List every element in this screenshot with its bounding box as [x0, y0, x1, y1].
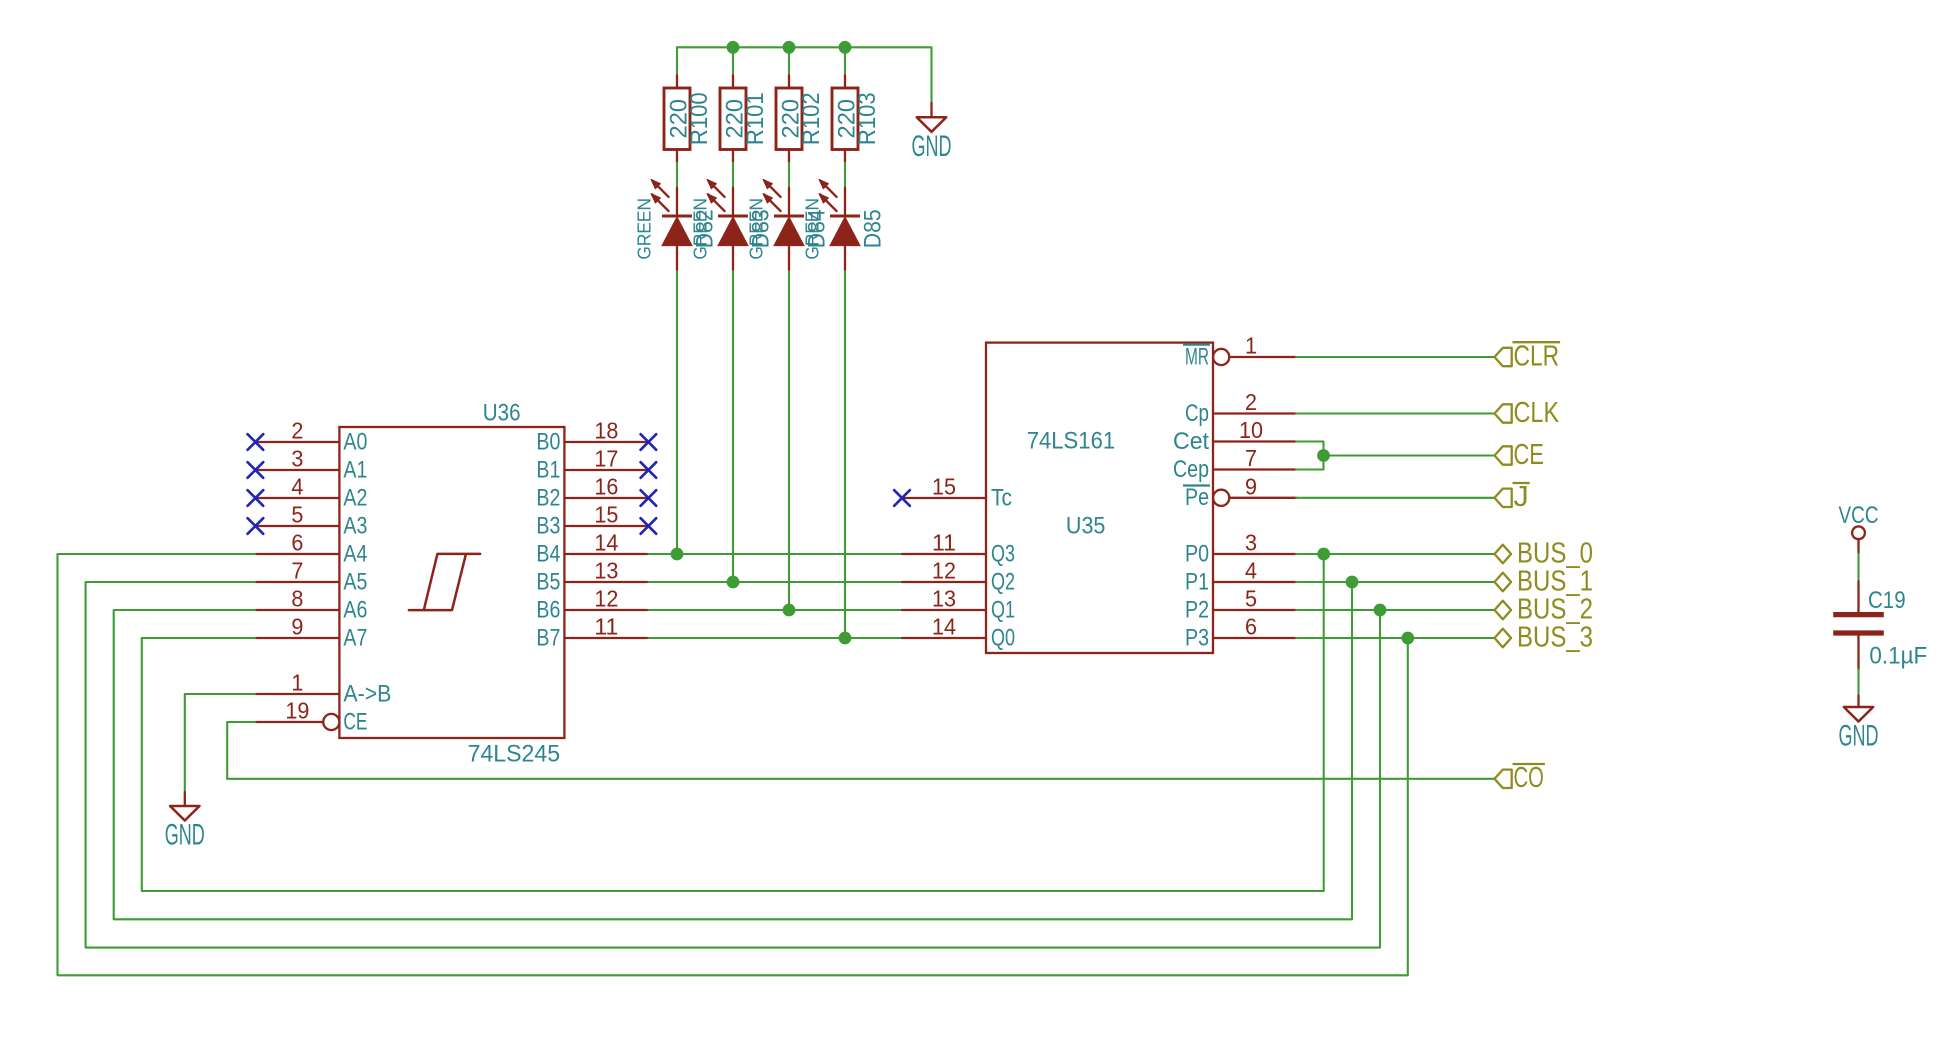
no-connect X at B3: [641, 518, 657, 534]
svg-text:7: 7: [1245, 445, 1257, 471]
wire: rail drop R102: [788, 47, 790, 75]
pin 2 A0 of U36: [255, 418, 367, 456]
svg-text:GND: GND: [165, 819, 205, 852]
svg-text:B5: B5: [536, 568, 560, 595]
pin 13 B5 of U36: [536, 558, 648, 596]
svg-text:19: 19: [285, 698, 309, 724]
svg-text:0.1µF: 0.1µF: [1869, 643, 1927, 670]
svg-text:CO: CO: [1514, 762, 1544, 794]
wire: P3 to BUS_3: [1296, 637, 1495, 639]
svg-text:R101: R101: [742, 92, 769, 145]
wire: LED D85 to B7 net: [844, 271, 846, 638]
junction at P pin x=1352: [1346, 576, 1359, 589]
junction on rail at R101: [727, 41, 740, 54]
wire: MR to CLR: [1296, 356, 1495, 358]
wire: A->B pin to ground: [185, 694, 256, 792]
svg-text:13: 13: [932, 586, 956, 612]
pin 9 Pe of U35: [1183, 473, 1296, 511]
svg-text:B2: B2: [536, 484, 560, 511]
svg-text:Cp: Cp: [1185, 400, 1209, 427]
svg-text:16: 16: [594, 474, 618, 500]
resistor R100 220: [664, 76, 713, 163]
pin 8 A6 of U36: [255, 586, 367, 624]
svg-text:1: 1: [291, 670, 303, 696]
svg-text:1: 1: [1245, 333, 1257, 359]
pin 3 P0 of U35: [1185, 530, 1296, 568]
svg-text:Q3: Q3: [991, 540, 1015, 567]
svg-text:3: 3: [291, 446, 303, 472]
junction at P pin x=1323.7: [1317, 548, 1330, 561]
svg-text:R103: R103: [854, 92, 881, 145]
pin 17 B1 of U36: [536, 446, 648, 484]
svg-text:A1: A1: [343, 456, 367, 483]
pin 16 B2 of U36: [536, 474, 648, 512]
svg-text:GND: GND: [1839, 720, 1879, 753]
svg-text:GREEN: GREEN: [803, 198, 823, 260]
svg-text:Cet: Cet: [1173, 428, 1209, 455]
wire: LED anode GND rail: [677, 47, 932, 103]
svg-text:GREEN: GREEN: [691, 198, 711, 260]
svg-text:7: 7: [291, 558, 303, 584]
svg-text:14: 14: [594, 530, 618, 556]
svg-text:2: 2: [1245, 389, 1257, 415]
svg-text:17: 17: [594, 446, 618, 472]
wire: VCC to C19: [1857, 554, 1859, 582]
svg-text:GND: GND: [912, 130, 952, 163]
svg-text:P2: P2: [1185, 596, 1209, 623]
svg-text:VCC: VCC: [1839, 502, 1879, 529]
junction at (677,554): [671, 548, 684, 561]
wire: R103 to LED: [844, 163, 846, 188]
pin 2 Cp of U35: [1185, 389, 1296, 427]
svg-text:4: 4: [1245, 558, 1257, 584]
wire: P2 to BUS_2: [1296, 609, 1495, 611]
no-connect X at A1: [248, 462, 264, 478]
svg-text:Cep: Cep: [1173, 456, 1209, 483]
svg-text:B1: B1: [536, 456, 560, 483]
LED D85 GREEN: [803, 179, 887, 271]
no-connect X at B0: [641, 434, 657, 450]
pin 3 A1 of U36: [255, 446, 367, 484]
svg-text:B0: B0: [536, 428, 560, 455]
svg-text:4: 4: [291, 474, 303, 500]
wire: R101 to LED: [732, 163, 734, 188]
pin 11 Q3 of U35: [902, 530, 1015, 568]
no-connect X at Tc: [894, 490, 910, 506]
pin 7 Cep of U35: [1173, 445, 1296, 483]
wire: B7 row to Q pin: [648, 637, 902, 639]
pin 1 A->B of U36: [255, 670, 391, 708]
svg-text:U36: U36: [483, 400, 521, 427]
svg-text:14: 14: [932, 614, 956, 640]
resistor R103 220: [832, 76, 881, 163]
wire: B6 row to Q pin: [648, 609, 902, 611]
op-amp U35 74LS161 counter: [986, 343, 1213, 653]
wire: BUS_3 feedback loop to A7: [58, 554, 1408, 975]
no-connect X at A3: [248, 518, 264, 534]
wire: CE pin to CO label: [227, 722, 1494, 779]
no-connect X at A2: [248, 490, 264, 506]
svg-text:Q0: Q0: [991, 624, 1015, 651]
hierarchical label BUS_2: [1495, 593, 1594, 625]
pin 4 A2 of U36: [255, 474, 367, 512]
pin 10 Cet of U35: [1173, 417, 1296, 455]
pin 9 A7 of U36: [255, 614, 367, 652]
svg-text:CLR: CLR: [1514, 340, 1560, 372]
pin 5 A3 of U36: [255, 502, 367, 540]
junction at (845,638): [839, 632, 852, 645]
pin 4 P1 of U35: [1185, 558, 1296, 596]
svg-text:CE: CE: [1514, 439, 1544, 471]
pin 7 A5 of U36: [255, 558, 367, 596]
svg-text:J: J: [1514, 481, 1529, 513]
junction at (733,582): [727, 576, 740, 589]
svg-text:74LS161: 74LS161: [1027, 427, 1116, 454]
wire: rail drop R103: [844, 47, 846, 75]
svg-text:GREEN: GREEN: [635, 198, 655, 260]
svg-text:R102: R102: [798, 92, 825, 145]
svg-text:9: 9: [1245, 473, 1257, 499]
pin 15 Tc of U35: [902, 474, 1012, 512]
wire: C19 to ground: [1857, 669, 1859, 695]
junction at (789,610): [783, 604, 796, 617]
junction on rail at R103: [839, 41, 852, 54]
svg-text:U35: U35: [1066, 512, 1106, 539]
pin 15 B3 of U36: [536, 502, 648, 540]
svg-text:D85: D85: [860, 209, 887, 248]
no-connect X at A0: [248, 434, 264, 450]
svg-text:B6: B6: [536, 596, 560, 623]
resistor R101 220: [720, 76, 769, 163]
wire: BUS_2 feedback loop to A6: [86, 582, 1380, 948]
svg-text:13: 13: [594, 558, 618, 584]
svg-text:12: 12: [594, 586, 618, 612]
pin 5 P2 of U35: [1185, 586, 1296, 624]
wire: bracket to CE label: [1324, 454, 1495, 456]
junction at P pin x=1380: [1374, 604, 1387, 617]
wire: BUS_0 feedback loop to A4: [142, 554, 1324, 891]
ground GND (bottom left): [184, 792, 186, 806]
wire: rail drop R100: [676, 47, 678, 75]
svg-text:CLK: CLK: [1514, 397, 1560, 429]
hierarchical label BUS_1: [1495, 565, 1594, 597]
wire: LED D84 to B6 net: [788, 271, 790, 610]
resistor R102 220: [776, 76, 825, 163]
svg-text:A7: A7: [343, 624, 367, 651]
op-amp U36 74LS245 buffer: [339, 400, 564, 768]
pin 1 MR of U35: [1183, 333, 1296, 371]
pin 14 B4 of U36: [536, 530, 648, 568]
LED D84 GREEN: [747, 179, 831, 271]
wire: R100 to LED: [676, 163, 678, 188]
wire: Pe to J: [1296, 497, 1495, 499]
svg-text:C19: C19: [1868, 587, 1906, 614]
pin 14 Q0 of U35: [902, 614, 1015, 652]
svg-text:Pe: Pe: [1185, 484, 1209, 511]
wire: LED D82 to B4 net: [676, 271, 678, 554]
svg-text:R100: R100: [686, 92, 713, 145]
svg-text:A4: A4: [343, 540, 367, 567]
wire: rail drop R101: [732, 47, 734, 75]
wire: Cet/Cep bracket: [1296, 442, 1324, 470]
pin 12 B6 of U36: [536, 586, 648, 624]
hierarchical label J: [1495, 481, 1530, 513]
svg-text:B4: B4: [536, 540, 560, 567]
hierarchical label CLK: [1495, 397, 1560, 429]
svg-text:15: 15: [594, 502, 618, 528]
capacitor C19 0.1uF: [1833, 581, 1927, 669]
hierarchical label CLR: [1495, 340, 1561, 372]
wire: R102 to LED: [788, 163, 790, 188]
svg-text:9: 9: [291, 614, 303, 640]
pin 6 A4 of U36: [255, 530, 367, 568]
pin 11 B7 of U36: [536, 614, 648, 652]
wire: B4 row to Q pin: [648, 553, 902, 555]
junction at CE bracket: [1317, 449, 1330, 462]
svg-text:6: 6: [291, 530, 303, 556]
svg-text:P3: P3: [1185, 624, 1209, 651]
svg-text:8: 8: [291, 586, 303, 612]
svg-text:A6: A6: [343, 596, 367, 623]
svg-text:Q1: Q1: [991, 596, 1015, 623]
junction at P pin x=1407.8: [1401, 632, 1414, 645]
svg-text:18: 18: [594, 418, 618, 444]
svg-text:P1: P1: [1185, 568, 1209, 595]
no-connect X at B1: [641, 462, 657, 478]
wire: BUS_1 feedback loop to A5: [114, 582, 1352, 919]
hierarchical label BUS_3: [1495, 621, 1594, 653]
LED D82 GREEN: [635, 179, 719, 271]
hierarchical label CO: [1495, 762, 1545, 794]
hierarchical label CE: [1495, 439, 1544, 471]
svg-text:3: 3: [1245, 530, 1257, 556]
svg-text:B3: B3: [536, 512, 560, 539]
svg-text:Q2: Q2: [991, 568, 1015, 595]
svg-text:BUS_3: BUS_3: [1517, 621, 1593, 653]
LED D83 GREEN: [691, 179, 775, 271]
svg-text:B7: B7: [536, 624, 560, 651]
svg-text:A3: A3: [343, 512, 367, 539]
svg-text:Tc: Tc: [991, 484, 1012, 511]
power VCC: [1839, 502, 1879, 554]
svg-text:6: 6: [1245, 614, 1257, 640]
ground GND (right): [1857, 695, 1859, 707]
svg-text:A->B: A->B: [343, 680, 391, 707]
wire: Cp to CLK: [1296, 412, 1495, 414]
svg-text:10: 10: [1239, 417, 1263, 443]
svg-text:11: 11: [932, 530, 956, 556]
svg-text:MR: MR: [1185, 343, 1209, 370]
svg-text:15: 15: [932, 474, 956, 500]
wire: P1 to BUS_1: [1296, 581, 1495, 583]
svg-text:5: 5: [291, 502, 303, 528]
svg-text:P0: P0: [1185, 540, 1209, 567]
pin 19 CE of U36 (inverted): [255, 698, 367, 736]
no-connect X at B2: [641, 490, 657, 506]
svg-text:A2: A2: [343, 484, 367, 511]
svg-text:A0: A0: [343, 428, 367, 455]
junction on rail at R102: [783, 41, 796, 54]
pin 6 P3 of U35: [1185, 614, 1296, 652]
svg-text:2: 2: [291, 418, 303, 444]
wire: LED D83 to B5 net: [732, 271, 734, 582]
svg-text:GREEN: GREEN: [747, 198, 767, 260]
wire: B5 row to Q pin: [648, 581, 902, 583]
hierarchical label BUS_0: [1495, 537, 1594, 569]
ground GND (top right): [930, 103, 932, 117]
pin 13 Q1 of U35: [902, 586, 1015, 624]
svg-text:A5: A5: [343, 568, 367, 595]
pin 18 B0 of U36: [536, 418, 648, 456]
svg-text:11: 11: [594, 614, 618, 640]
pin 12 Q2 of U35: [902, 558, 1015, 596]
wire: P0 to BUS_0: [1296, 553, 1495, 555]
svg-text:CE: CE: [343, 708, 367, 735]
svg-text:5: 5: [1245, 586, 1257, 612]
svg-text:12: 12: [932, 558, 956, 584]
svg-text:74LS245: 74LS245: [468, 741, 560, 768]
